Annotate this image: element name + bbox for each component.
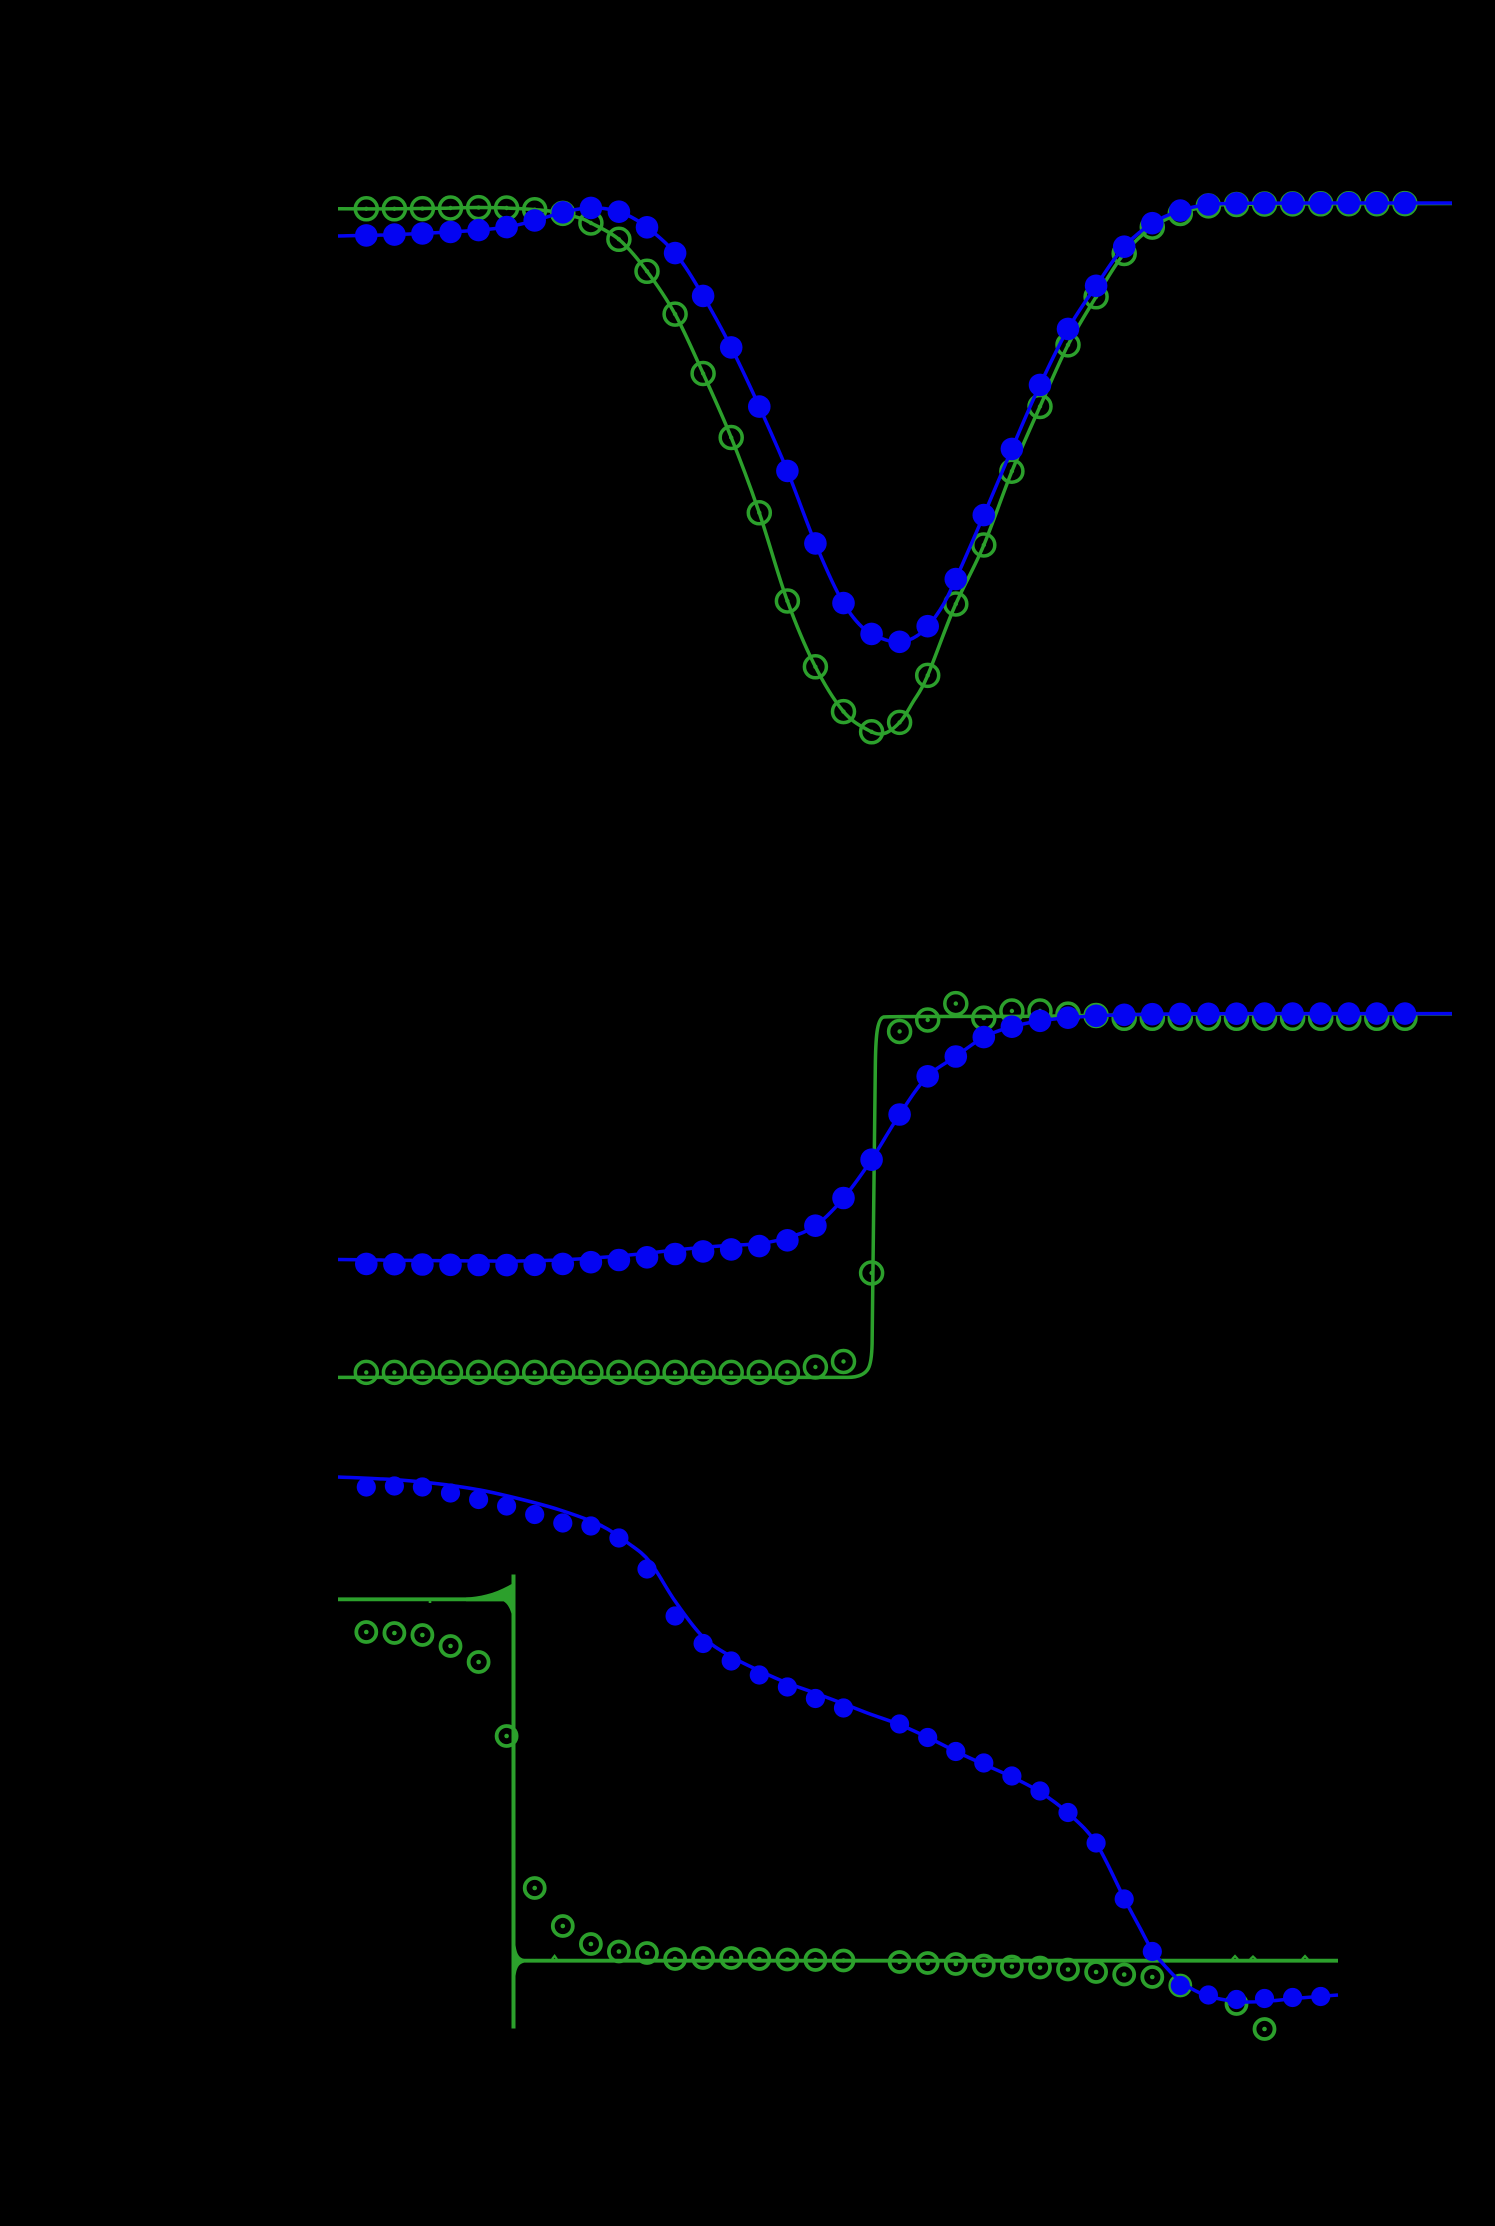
bottom panel: green impulse-response upper line segment <box>338 1584 512 1614</box>
bottom panel: green baseline segment <box>516 1945 1339 1976</box>
middle panel: blue filled markers <box>355 1002 1416 1276</box>
middle panel: green step line <box>338 1014 1452 1377</box>
bottom panel: green vertical impulse line <box>512 1575 516 2029</box>
bottom panel: blue filled data markers <box>357 1476 1331 2009</box>
top panel: blue filled markers <box>355 192 1416 653</box>
top panel: green model line <box>338 204 1452 735</box>
middle panel: green open-circle markers <box>355 993 1416 1384</box>
bottom panel: blue model line <box>338 1477 1338 2002</box>
middle panel: blue sigmoid line <box>338 1014 1452 1262</box>
bottom panel: green open-circle data markers <box>356 1622 1274 2039</box>
bottom panel: green baseline tiny ringing bumps <box>552 1956 1308 1960</box>
top panel: green open-circle markers <box>355 193 1416 743</box>
top panel: blue model line <box>338 203 1452 642</box>
bottom panel: green upper-line small notch <box>429 1599 432 1603</box>
